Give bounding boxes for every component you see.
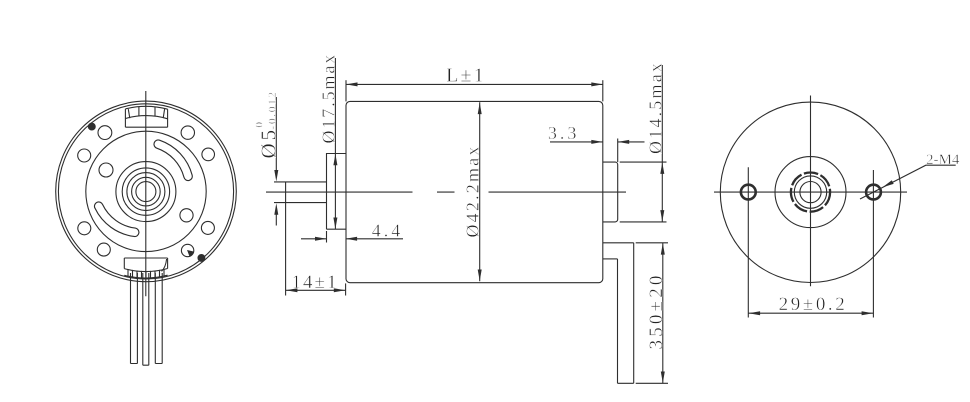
rear outer circle: [720, 102, 900, 282]
left view vertical centerline: [145, 91, 147, 296]
motor face circle: [86, 131, 206, 251]
dim phi5 arrows: [274, 170, 278, 182]
dim L line: [346, 83, 603, 85]
dim 350 line: [662, 243, 664, 383]
svg-text:Ø17.5max: Ø17.5max: [318, 53, 338, 144]
lead wire 2: [143, 273, 149, 365]
M4 hole right bold: [866, 185, 881, 200]
dim phi14.5 ext top: [620, 161, 667, 163]
bottom tab inner curve: [162, 259, 167, 271]
dim phi5 line: [275, 97, 277, 226]
dim 350 ext top: [636, 242, 668, 244]
rear hub circle: [775, 157, 846, 228]
notch mark in hole 2: [188, 251, 194, 257]
inner hole left: [99, 163, 113, 177]
top tab bottom edge: [125, 126, 167, 128]
front boss phi17.5: [327, 154, 346, 230]
shaft end / 14 extension line: [285, 182, 287, 296]
dim phi14.5 ext bottom: [620, 221, 667, 223]
motor front rim inner circle: [58, 104, 233, 279]
lead wire 1: [131, 273, 138, 364]
inner hole right: [180, 209, 193, 222]
bottom tab left side: [123, 258, 125, 269]
top tab right side: [167, 109, 169, 127]
dim 3.3 arrows: [591, 140, 603, 144]
screw hole ring 3: [97, 243, 110, 256]
vent slot top-right white: [158, 144, 188, 176]
2-M4 leader line: [860, 165, 956, 199]
top tab left side: [124, 109, 126, 127]
dim 350 arrows: [661, 243, 665, 255]
screw hole ring 6: [98, 126, 112, 140]
svg-text:2-M4: 2-M4: [926, 152, 960, 168]
vent slot top-right black: [158, 144, 188, 176]
dim L extension right: [602, 80, 604, 101]
wire exit step top: [603, 242, 634, 244]
svg-text:0: 0: [254, 122, 266, 128]
weld dot top-left: [88, 123, 95, 130]
wire tube left wall: [617, 259, 619, 383]
dim 3.3 extension: [617, 139, 619, 163]
svg-text:Ø5: Ø5: [257, 127, 281, 159]
dim phi17.5 arrows: [333, 154, 337, 166]
top tab tick 3: [154, 107, 156, 116]
M4 hole left bold: [741, 185, 756, 200]
middle view centerline: [266, 191, 626, 193]
bottom tab ticks: [128, 269, 164, 278]
dim 14 extension right: [345, 283, 347, 295]
wire exit step bottom: [603, 258, 618, 260]
hub circle 5: [136, 182, 156, 202]
shaft bottom line: [274, 202, 327, 204]
hub circle 3: [127, 173, 165, 211]
screw hole ring 8: [202, 148, 215, 161]
2-M4 leader arrow: [882, 180, 894, 189]
svg-text:350±20: 350±20: [646, 272, 667, 349]
dim 4.4 arrows: [315, 237, 327, 241]
rear shaft hole circle: [800, 182, 821, 203]
svg-text:L±1: L±1: [446, 65, 486, 87]
svg-text:Ø42.2max: Ø42.2max: [463, 144, 483, 237]
front boss bottom edge: [327, 228, 346, 230]
vent slot bottom-left white: [99, 206, 135, 232]
svg-text:14±1: 14±1: [292, 272, 339, 293]
M4 right hole centerline: [872, 170, 874, 318]
rear horizontal centerline: [714, 191, 907, 193]
dim 14 arrows: [286, 288, 298, 292]
dim phi14.5 line: [661, 65, 663, 222]
rear thread circle dashed: [791, 173, 830, 212]
shaft top line: [274, 181, 327, 183]
dim phi42.2 line: [479, 102, 481, 281]
hub circle 4: [132, 177, 161, 206]
svg-text:3.3: 3.3: [548, 123, 580, 143]
dim phi17.5 line: [334, 58, 336, 229]
dim 3.3 right line: [618, 141, 645, 143]
dim 29 line: [748, 312, 873, 314]
dim 3.3 left line: [550, 141, 603, 143]
dim 29 arrows: [749, 311, 761, 315]
wire tube right wall: [633, 243, 635, 383]
svg-text:-0.012: -0.012: [267, 90, 279, 129]
top tab tick 4: [163, 109, 164, 118]
top tab band inner arc: [125, 116, 167, 119]
motor front outer circle: [56, 101, 237, 282]
wire tube bottom cap: [618, 382, 634, 384]
bottom tab top edge: [124, 257, 167, 259]
dim 14 line: [286, 289, 346, 291]
top tab tick 1: [128, 109, 130, 118]
screw hole ring 1: [201, 221, 214, 234]
bottom tab band upper arc: [124, 269, 167, 272]
hub circle 2: [122, 168, 169, 215]
dim 4.4 left line: [301, 238, 327, 240]
dim phi14.5 arrows: [660, 162, 664, 174]
rear bearing circle: [794, 176, 826, 208]
motor body rounded rect: [346, 101, 603, 282]
vent slot bottom-left black: [99, 206, 135, 232]
top tab band outer arc: [125, 106, 167, 109]
svg-text:29±0.2: 29±0.2: [779, 294, 848, 315]
svg-text:Ø14.5max: Ø14.5max: [645, 61, 665, 154]
screw hole ring 5: [78, 149, 91, 162]
dim 4.4 extension: [326, 231, 328, 243]
bottom tab band lower arc: [124, 275, 167, 278]
screw hole ring 4: [78, 222, 91, 235]
screw hole ring 2 notched: [181, 244, 193, 256]
bottom tab right side: [167, 258, 169, 269]
rear boss phi14.5: [603, 162, 618, 222]
dim 4.4 right line: [346, 238, 403, 240]
dim L arrows: [346, 82, 358, 86]
dim 350 ext bottom: [636, 382, 668, 384]
lead wire 3: [155, 273, 162, 364]
M4 left hole centerline: [747, 167, 749, 317]
weld dot bottom-right: [198, 255, 205, 262]
svg-text:4.4: 4.4: [372, 221, 404, 241]
hub circle 1: [116, 162, 176, 222]
screw hole ring 7: [181, 126, 194, 139]
rear vertical centerline: [810, 96, 812, 287]
top tab tick 2: [138, 107, 140, 116]
dim L extension left: [345, 80, 347, 101]
dim phi42.2 arrows: [478, 103, 482, 115]
